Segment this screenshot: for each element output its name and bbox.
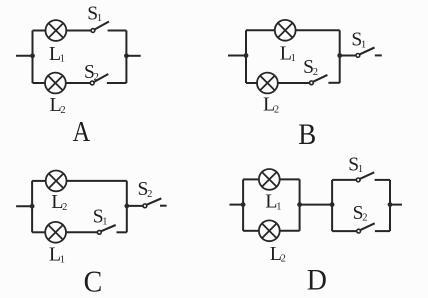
- node: D left junction dot: [241, 202, 246, 207]
- wire: D switch branch bottom, S2 contact to right bus: [375, 230, 390, 232]
- wire: B bottom branch, lamp L2 to switch S2: [278, 82, 310, 84]
- switch S1 (option A) pivot: [91, 29, 95, 33]
- node: D switch-block left junction dot: [330, 202, 335, 207]
- wire: A right vertical bus: [125, 31, 127, 84]
- wire: C left vertical bus: [31, 181, 33, 232]
- node: C right junction dot: [124, 204, 129, 209]
- lamp L2 (option D): [259, 220, 280, 241]
- svg-text:1: 1: [291, 53, 296, 64]
- switch S2 (option A) pivot: [90, 81, 94, 85]
- wire: A left vertical bus: [32, 31, 34, 84]
- wire: C right vertical bus: [126, 181, 128, 232]
- wire: A top branch, left of lamp L1: [33, 30, 46, 32]
- wire: D bottom branch, left of lamp L2: [243, 230, 259, 232]
- wire: B top branch, left of lamp L1: [246, 29, 275, 31]
- wire: C top branch, lamp L2 to right bus: [67, 180, 127, 182]
- wire: D switch branch top, left of S1: [332, 179, 356, 181]
- wire: B node to switch S1: [340, 55, 356, 57]
- switch S1 (option D) blade: [360, 172, 374, 179]
- node: B left junction dot: [244, 53, 249, 58]
- node: D lamp-block right junction dot: [297, 202, 302, 207]
- lamp L1 (option D): [259, 169, 280, 190]
- switch S1 (option C) pivot: [97, 230, 101, 234]
- wire: D left terminal stub: [230, 204, 244, 206]
- wire: A top branch, lamp L1 to switch S1: [67, 30, 92, 32]
- lamp L2 (option B): [257, 73, 278, 94]
- wire: B top branch, lamp L1 to right bus: [296, 29, 340, 31]
- wire: B right terminal dash after S1: [375, 54, 382, 56]
- svg-text:B: B: [298, 119, 316, 152]
- svg-text:2: 2: [281, 254, 286, 265]
- svg-text:A: A: [73, 115, 91, 147]
- wire: D switch-block left vertical bus: [331, 180, 333, 231]
- wire: C left terminal stub: [16, 205, 32, 207]
- wire: C bottom branch, left of lamp L1: [32, 231, 45, 233]
- switch S2 (option D) blade: [360, 223, 375, 230]
- wire: C node to switch S2: [127, 205, 143, 207]
- svg-text:C: C: [84, 265, 103, 298]
- svg-text:2: 2: [60, 105, 65, 116]
- lamp L2 (option C, top): [46, 171, 67, 192]
- svg-text:1: 1: [60, 54, 65, 65]
- lamp L1 (option B): [275, 20, 296, 41]
- node: D right junction dot: [388, 202, 393, 207]
- switch S2 (option A) blade: [94, 74, 109, 82]
- wire: A right terminal stub: [126, 55, 140, 57]
- svg-text:1: 1: [60, 255, 65, 266]
- wire: B bottom branch, left of lamp L2: [246, 82, 257, 84]
- lamp L1 (option A): [46, 20, 67, 41]
- svg-text:1: 1: [361, 39, 366, 50]
- wire: D top branch, left of lamp L1: [243, 178, 259, 180]
- svg-text:2: 2: [147, 189, 152, 200]
- switch S2 (option C) pivot: [143, 204, 147, 208]
- node: A right junction dot: [124, 53, 129, 58]
- wire: D switch branch bottom, left of S2: [332, 230, 357, 232]
- wire: C bottom branch, lamp L1 to switch S1: [66, 231, 97, 233]
- switch S1 (option D) pivot: [356, 178, 360, 182]
- svg-text:2: 2: [94, 72, 99, 83]
- lamp L2 (option A): [45, 73, 66, 94]
- node: A left junction dot: [30, 53, 35, 58]
- wire: D middle link between lamp block and switch block: [300, 204, 333, 206]
- svg-text:1: 1: [276, 202, 281, 213]
- svg-text:2: 2: [362, 213, 367, 224]
- wire: B right vertical bus: [339, 30, 341, 83]
- switch S1 (option A) blade: [95, 22, 110, 30]
- wire: D switch branch top, S1 contact to right bus: [375, 179, 390, 181]
- wire: B left vertical bus: [245, 30, 247, 83]
- wire: B left terminal stub: [228, 55, 246, 57]
- wire: C bottom branch, S1 contact to right bus: [117, 231, 127, 233]
- switch S2 (option D) pivot: [357, 229, 361, 233]
- wire: B bottom branch, S2 contact to right bus: [328, 82, 339, 84]
- switch S1 (option C) blade: [101, 225, 116, 231]
- wire: D switch-block right vertical bus: [389, 180, 391, 231]
- wire: C right terminal dash after S2: [160, 205, 167, 207]
- switch S2 (option B) blade: [313, 75, 327, 82]
- wire: A bottom branch, S2 contact to right bus: [107, 82, 127, 84]
- svg-text:2: 2: [313, 67, 318, 78]
- svg-text:2: 2: [274, 105, 279, 116]
- svg-text:1: 1: [358, 164, 363, 175]
- svg-text:1: 1: [102, 216, 107, 227]
- switch S1 (option B) pivot: [356, 54, 360, 58]
- switch S1 (option B) blade: [360, 48, 375, 55]
- svg-text:2: 2: [62, 202, 67, 213]
- wire: D lamp-block left vertical bus: [242, 179, 244, 230]
- wire: A bottom branch, lamp L2 to switch S2: [66, 82, 90, 84]
- switch S2 (option B) pivot: [310, 81, 314, 85]
- switch S2 (option C) blade: [147, 198, 162, 204]
- wire: D right terminal stub: [390, 204, 402, 206]
- svg-text:D: D: [307, 264, 327, 297]
- wire: A top branch, S1 contact to right bus: [108, 30, 127, 32]
- node: C left junction dot: [30, 204, 35, 209]
- svg-text:1: 1: [97, 13, 102, 24]
- wire: A bottom branch, left of lamp L2: [33, 82, 45, 84]
- wire: D bottom branch, lamp L2 to lamp-block right bus: [280, 230, 300, 232]
- node: B right junction dot: [337, 53, 342, 58]
- wire: A left terminal stub: [16, 55, 33, 57]
- wire: C top branch, left of lamp L2: [32, 180, 45, 182]
- wire: D top branch, lamp L1 to lamp-block right bus: [280, 178, 300, 180]
- wire: D lamp-block right vertical bus: [299, 179, 301, 230]
- lamp L1 (option C, bottom): [45, 222, 66, 243]
